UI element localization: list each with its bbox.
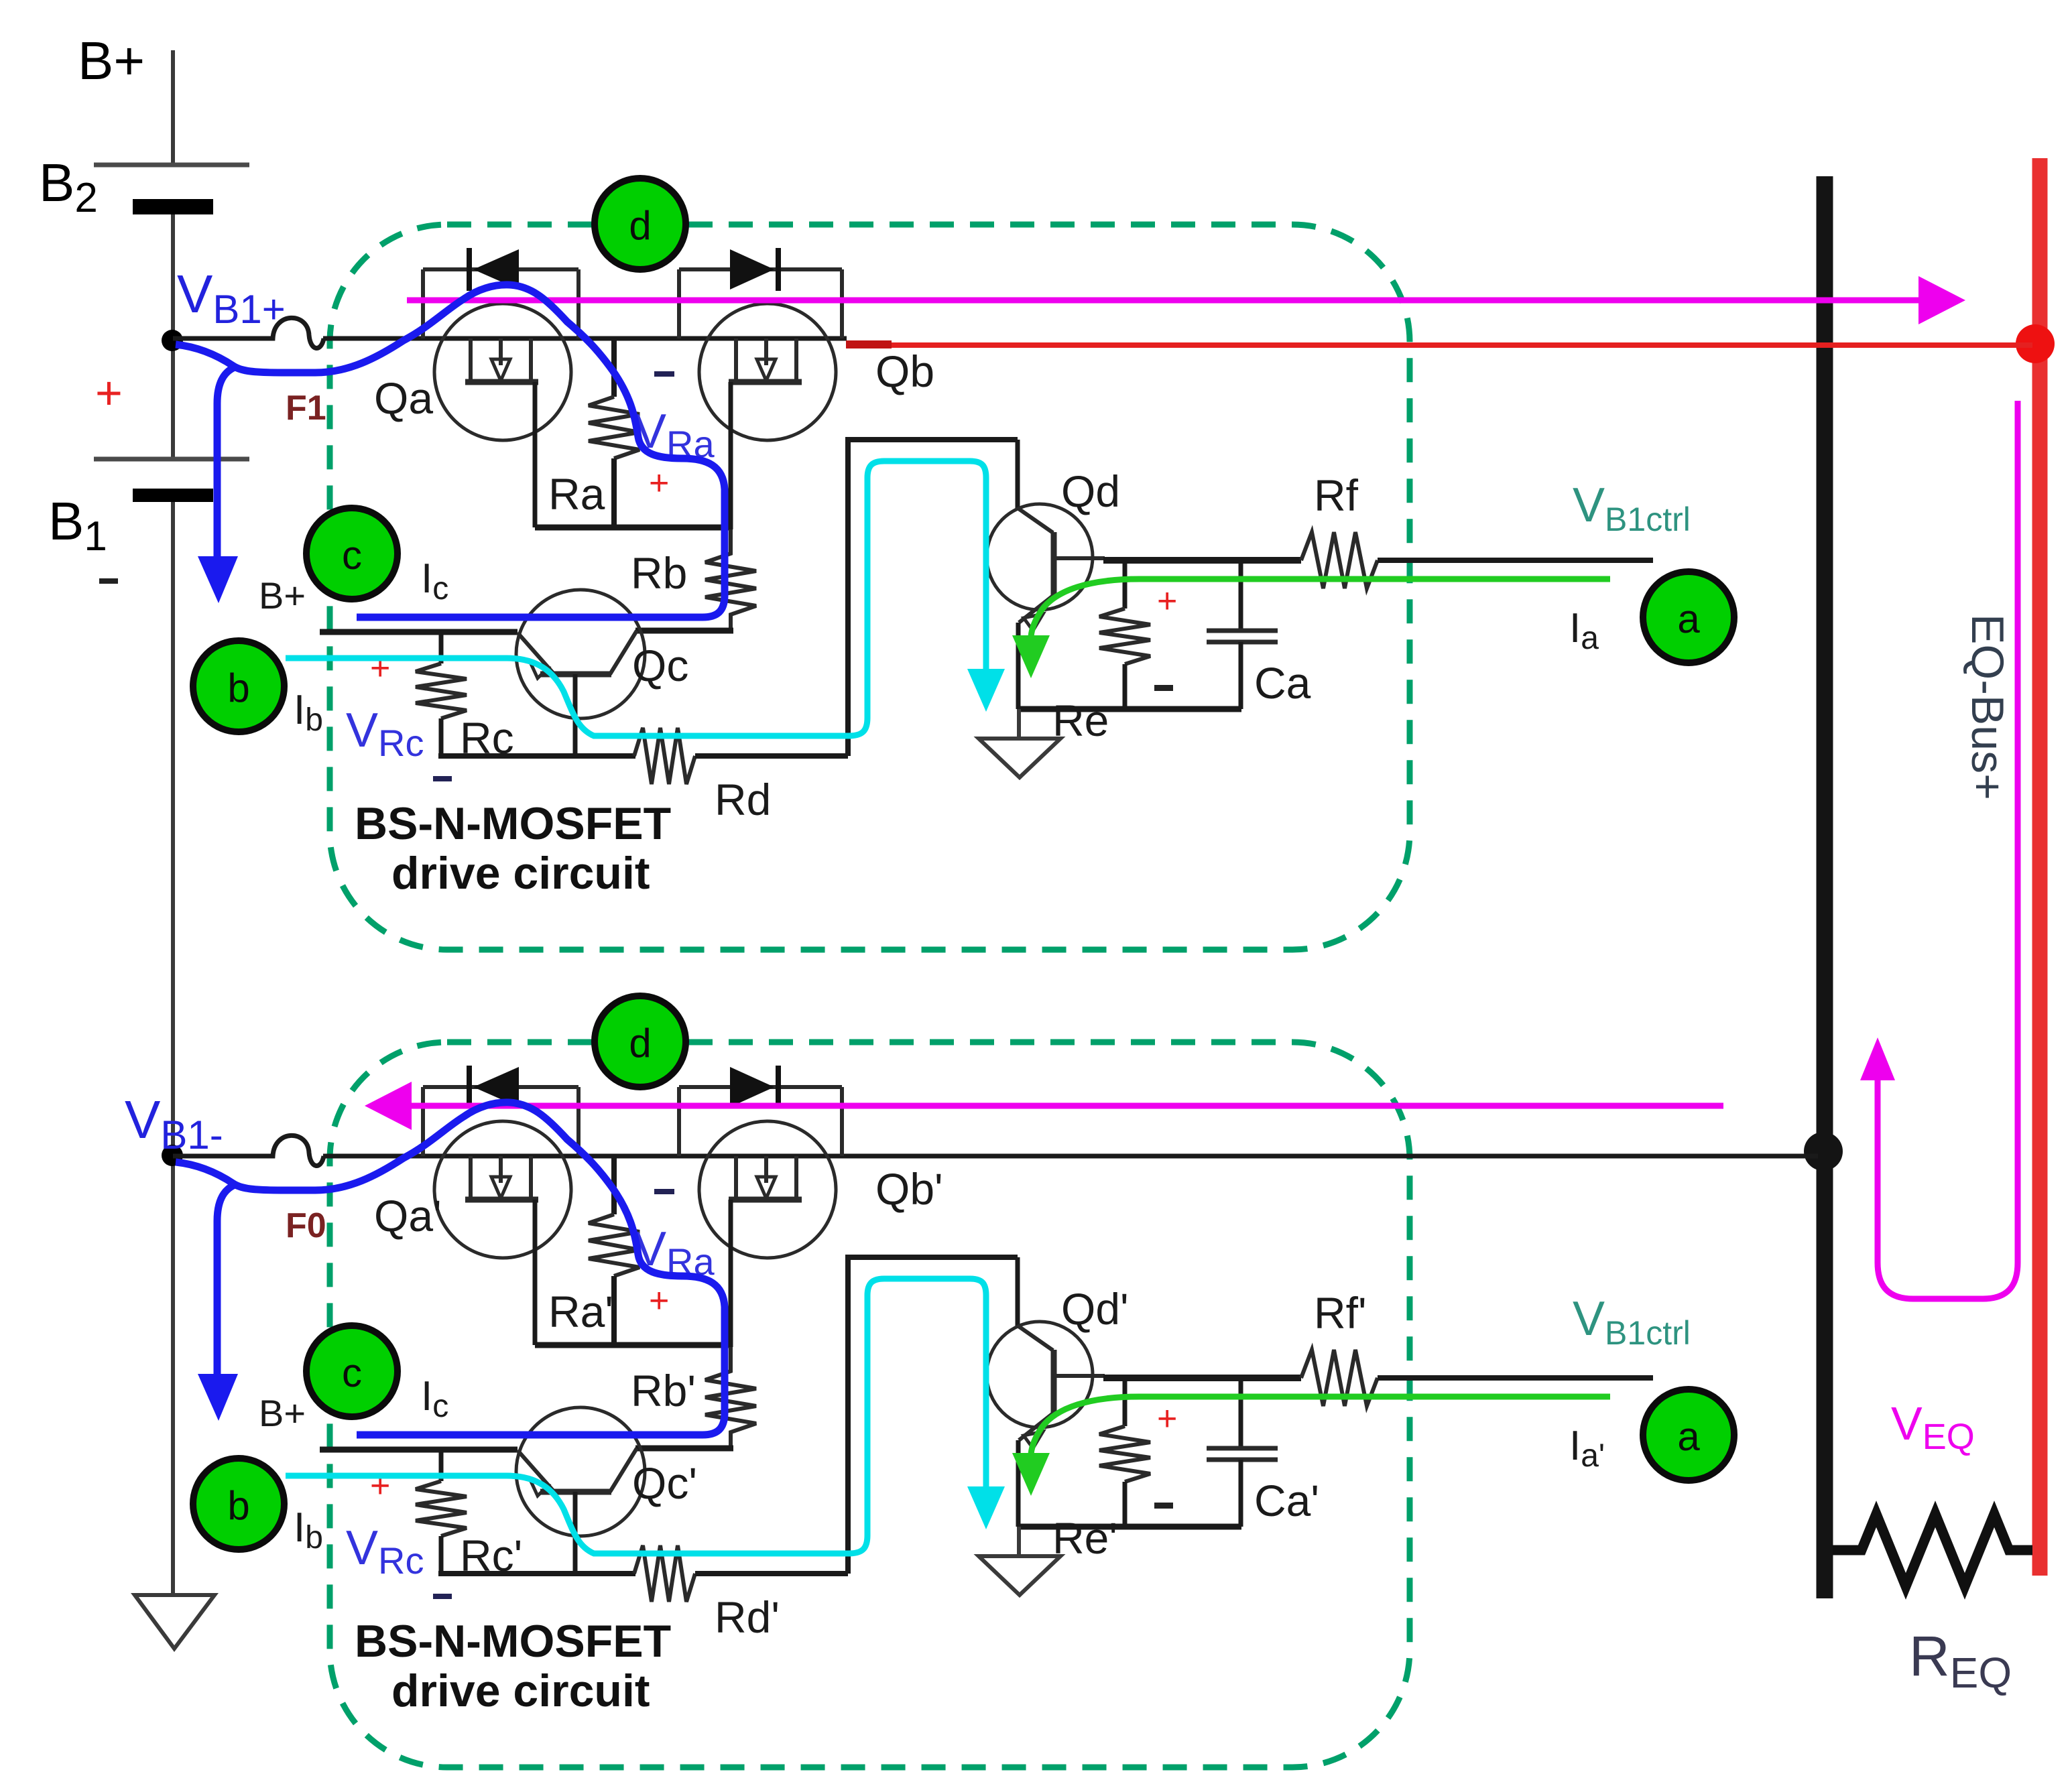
Qd collector diagonal bbox=[1018, 1326, 1053, 1350]
MOSFET Qa body bbox=[434, 304, 571, 440]
fuse F1 bbox=[255, 318, 324, 348]
node VB1- bbox=[162, 1145, 183, 1166]
svg-text:Rc: Rc bbox=[460, 713, 514, 763]
svg-text:d: d bbox=[629, 1021, 651, 1066]
Qd emitter lead down bbox=[1016, 1440, 1021, 1527]
label - of Re bbox=[1154, 685, 1173, 691]
Qd emitter diagonal bbox=[1019, 595, 1054, 623]
Qb substrate arrow bbox=[757, 359, 776, 381]
Qc base bar bbox=[540, 1489, 611, 1495]
svg-text:Qc': Qc' bbox=[632, 1458, 697, 1508]
wire B+ left rail bbox=[171, 50, 175, 165]
Qc collector diagonal bbox=[610, 631, 637, 674]
MOSFET Qb body bbox=[699, 1121, 836, 1258]
Qa diode triangle (points left) bbox=[473, 249, 519, 290]
Qa diode cathode bar bbox=[467, 248, 472, 291]
resistor Rb bbox=[705, 529, 756, 631]
Rc bottom lead bbox=[439, 718, 444, 756]
blue current path (bottom block) bbox=[176, 1102, 725, 1435]
resistor Re stub bbox=[1123, 1378, 1128, 1426]
green current path Ia (top block) bbox=[1031, 579, 1610, 637]
bottom wire Re Ca bbox=[1018, 1524, 1241, 1530]
Qc emitter arrow (PNP, toward base) bbox=[530, 661, 548, 678]
wire fuse to Qa bbox=[323, 336, 437, 341]
svg-text:+: + bbox=[370, 1466, 390, 1505]
Qd base bar bbox=[1051, 1350, 1057, 1413]
svg-text:Rb': Rb' bbox=[631, 1366, 696, 1415]
Qb diode triangle (points right) bbox=[730, 249, 774, 290]
wire Rf to VB1ctrl bbox=[1378, 1375, 1653, 1381]
ground stem (Qd) bbox=[1017, 709, 1021, 739]
Qb diode cathode bar bbox=[776, 1066, 781, 1108]
magenta path (bottom, from EQ bus) bbox=[409, 1103, 1723, 1109]
Qd emitter arrow bbox=[1024, 1432, 1043, 1448]
blue current path (top block) bbox=[176, 285, 725, 617]
MOSFET Qb internals bbox=[729, 1156, 802, 1200]
svg-text:BS-N-MOSFET: BS-N-MOSFET bbox=[355, 798, 671, 849]
wire rail below B1 to ground bbox=[171, 496, 175, 1595]
wire B+ stub to Qc emitter bbox=[320, 1447, 517, 1453]
svg-text:+: + bbox=[95, 367, 123, 419]
svg-text:drive circuit: drive circuit bbox=[391, 848, 650, 899]
black bus bbox=[1817, 176, 1833, 1598]
bottom wire Re Ca bbox=[1018, 706, 1241, 712]
svg-text:a: a bbox=[1677, 596, 1700, 641]
Qd collector diagonal bbox=[1018, 508, 1053, 533]
resistor Rd bbox=[634, 1545, 695, 1602]
ground (Qd emitter) bbox=[979, 739, 1060, 777]
svg-text:+: + bbox=[370, 649, 390, 688]
svg-text:EQ-Bus+: EQ-Bus+ bbox=[1962, 614, 2013, 800]
resistor Rc bbox=[416, 663, 467, 718]
svg-text:d: d bbox=[629, 203, 651, 248]
wire Qc collector to Rb bbox=[635, 628, 733, 634]
svg-text:b: b bbox=[227, 665, 249, 710]
capacitor Ca plates bbox=[1207, 1446, 1278, 1451]
svg-text:Qa': Qa' bbox=[374, 1191, 442, 1241]
body diode of Qa bbox=[423, 269, 578, 338]
node c (bottom) bbox=[306, 1326, 398, 1417]
resistor Rf bbox=[1301, 1350, 1378, 1406]
svg-text:Qc: Qc bbox=[632, 641, 688, 690]
transistor Qc body bbox=[516, 1407, 645, 1536]
Qa gate lead bbox=[533, 382, 538, 527]
svg-text:Ca: Ca bbox=[1254, 658, 1311, 708]
resistor Rb bbox=[705, 1347, 756, 1448]
gate wire bbox=[535, 525, 731, 531]
Qa diode cathode bar bbox=[467, 1066, 472, 1108]
green arrowhead (bottom) bbox=[1012, 1453, 1050, 1496]
svg-text:Qd: Qd bbox=[1061, 466, 1120, 516]
magenta arrowhead (bottom) bbox=[365, 1082, 412, 1130]
resistor Re bbox=[1099, 609, 1150, 664]
Ca bottom lead bbox=[1239, 642, 1243, 709]
svg-text:Rd: Rd bbox=[715, 775, 771, 824]
node a (top) bbox=[1643, 572, 1734, 663]
riser wire to Qd collector rail bbox=[845, 1257, 851, 1574]
MOSFET Qa internals bbox=[465, 338, 538, 382]
wire fuse to Qa bbox=[323, 1154, 437, 1159]
label - of VRa bbox=[654, 1189, 674, 1194]
svg-text:c: c bbox=[342, 1350, 362, 1395]
wire Qc collector to Rb bbox=[635, 1446, 733, 1452]
red wire Qb to EQ-Bus+ bbox=[846, 342, 2032, 348]
Qd base bar bbox=[1051, 532, 1057, 595]
svg-text:+: + bbox=[649, 464, 669, 503]
Qd emitter arrow bbox=[1024, 614, 1043, 631]
resistor Rc stub bbox=[439, 632, 444, 663]
svg-text:B+: B+ bbox=[78, 31, 145, 90]
ground stem (Qd) bbox=[1017, 1527, 1021, 1556]
cyan current path (top block) bbox=[286, 461, 986, 736]
resistor Ra stub from source node bbox=[611, 1156, 617, 1214]
resistor Ra bbox=[589, 397, 639, 458]
body diode of Qb bbox=[679, 1087, 842, 1156]
wire main D-S line through Qa and Qb bbox=[436, 1154, 878, 1159]
svg-text:Qb': Qb' bbox=[875, 1164, 943, 1214]
Qc emitter arrow (PNP, toward base) bbox=[530, 1478, 548, 1496]
Qa substrate arrow bbox=[491, 1177, 510, 1198]
transistor Qd body bbox=[987, 1322, 1093, 1427]
svg-text:b: b bbox=[227, 1483, 249, 1528]
Qc base lead down bbox=[573, 674, 578, 756]
svg-text:Rd': Rd' bbox=[715, 1592, 780, 1642]
transistor Qd body bbox=[987, 504, 1093, 610]
blue arrow at VB1- node bbox=[217, 1185, 235, 1377]
wire rail between batteries bbox=[171, 209, 175, 460]
svg-text:Ra': Ra' bbox=[548, 1287, 613, 1336]
Ra bottom lead bbox=[611, 458, 617, 529]
magenta V_EQ arrowhead bbox=[1860, 1037, 1895, 1080]
control wire to Rf bbox=[1103, 557, 1301, 564]
Qd emitter lead down bbox=[1016, 623, 1021, 709]
MOSFET Qb body bbox=[699, 304, 836, 440]
resistor Rf bbox=[1301, 532, 1378, 588]
svg-text:c: c bbox=[342, 533, 362, 578]
label - of VRc bbox=[433, 1594, 452, 1599]
resistor Ra bbox=[589, 1214, 639, 1276]
node on red bus bbox=[2016, 324, 2055, 363]
dashed enclosure (BS-N-MOSFET drive circuit, top) bbox=[330, 225, 1410, 950]
Qb diode cathode bar bbox=[776, 248, 781, 291]
Qa diode triangle (points left) bbox=[473, 1067, 519, 1107]
base wire Rc to Rd bbox=[438, 753, 635, 759]
svg-text:Ra: Ra bbox=[548, 469, 605, 519]
magenta arrowhead (top) bbox=[1918, 276, 1965, 324]
resistor Rd bbox=[634, 728, 695, 784]
svg-text:+: + bbox=[1157, 1399, 1177, 1438]
svg-text:Rf: Rf bbox=[1314, 470, 1359, 520]
svg-text:B+: B+ bbox=[259, 1392, 306, 1434]
svg-text:Qa: Qa bbox=[374, 373, 433, 423]
resistor Re stub bbox=[1123, 560, 1128, 609]
svg-text:Re': Re' bbox=[1052, 1513, 1117, 1563]
node a (bottom) bbox=[1643, 1389, 1734, 1480]
Qd collector drop bbox=[1016, 440, 1020, 509]
svg-text:drive circuit: drive circuit bbox=[391, 1665, 650, 1716]
Qd base lead bbox=[1054, 556, 1105, 560]
resistor Rc bbox=[416, 1481, 467, 1536]
Qa substrate arrow bbox=[491, 359, 510, 381]
Qb gate lead bbox=[729, 382, 733, 529]
wire Rf to VB1ctrl bbox=[1378, 558, 1653, 563]
node on black bus bbox=[1804, 1132, 1843, 1171]
wire bottom block to black bus bbox=[875, 1154, 1818, 1159]
green arrowhead (top) bbox=[1012, 635, 1050, 678]
capacitor Ca plates bbox=[1207, 629, 1278, 633]
fuse F1 bbox=[255, 1135, 324, 1165]
top wire to Qd collector bbox=[845, 1255, 1018, 1260]
svg-text:F0: F0 bbox=[286, 1206, 326, 1245]
svg-text:B+: B+ bbox=[259, 574, 306, 617]
Qd collector drop bbox=[1016, 1257, 1020, 1327]
Qc base bar bbox=[540, 672, 611, 678]
svg-text:F1: F1 bbox=[286, 389, 326, 428]
svg-text:+: + bbox=[1157, 582, 1177, 621]
dashed enclosure (BS-N-MOSFET drive circuit, top) bbox=[330, 1042, 1410, 1767]
node c (top) bbox=[306, 508, 398, 599]
resistor R_EQ bbox=[1833, 1514, 2032, 1586]
Rc bottom lead bbox=[439, 1536, 444, 1574]
ground (left rail) bbox=[135, 1595, 215, 1649]
wire VB1+ node to fuse bbox=[173, 336, 258, 341]
red wire stub at Qb drain bbox=[846, 340, 892, 348]
svg-text:BS-N-MOSFET: BS-N-MOSFET bbox=[355, 1616, 671, 1667]
green current path Ia' (bottom block) bbox=[1031, 1397, 1610, 1454]
node b (top) bbox=[193, 641, 284, 732]
transistor Qc body bbox=[516, 590, 645, 718]
resistor Ra stub from source node bbox=[611, 338, 617, 397]
label - of VRc bbox=[433, 776, 452, 781]
svg-text:Qb: Qb bbox=[875, 346, 934, 396]
label - of B1 bbox=[99, 578, 118, 584]
svg-text:Rb: Rb bbox=[631, 548, 687, 598]
MOSFET Qa body bbox=[434, 1121, 571, 1258]
svg-text:Qd': Qd' bbox=[1061, 1284, 1129, 1334]
cyan arrowhead (bottom) bbox=[967, 1486, 1005, 1529]
svg-text:Rc': Rc' bbox=[460, 1531, 522, 1580]
Qb gate lead bbox=[729, 1200, 733, 1347]
wire Rd to riser bbox=[695, 753, 848, 759]
Qb diode triangle (points right) bbox=[730, 1067, 774, 1107]
battery B1 bbox=[94, 457, 249, 462]
wire B+ stub to Qc emitter bbox=[320, 629, 517, 635]
resistor Rc stub bbox=[439, 1450, 444, 1481]
magenta V_EQ loop bbox=[1878, 401, 2018, 1299]
Qc emitter diagonal bbox=[517, 1450, 553, 1490]
Re bottom lead bbox=[1123, 1482, 1128, 1527]
svg-text:+: + bbox=[649, 1281, 669, 1320]
svg-text:Rf': Rf' bbox=[1314, 1288, 1367, 1338]
body diode of Qa bbox=[423, 1087, 578, 1156]
Qc base lead down bbox=[573, 1492, 578, 1574]
Ra bottom lead bbox=[611, 1276, 617, 1347]
battery B2 bbox=[94, 163, 249, 168]
body diode of Qb bbox=[679, 269, 842, 338]
Qc emitter diagonal bbox=[517, 633, 553, 673]
top wire to Qd collector bbox=[845, 437, 1018, 442]
control wire to Rf bbox=[1103, 1375, 1301, 1381]
Qd base lead bbox=[1054, 1374, 1105, 1378]
label - of VRa bbox=[654, 371, 674, 377]
base wire Rc to Rd bbox=[438, 1571, 635, 1576]
magenta path (top, to EQ-Bus+) bbox=[407, 298, 1921, 304]
riser wire to Qd collector rail bbox=[845, 440, 851, 756]
wire VB1+ node to fuse bbox=[173, 1154, 258, 1159]
node VB1+ bbox=[162, 330, 183, 351]
gate wire bbox=[535, 1342, 731, 1348]
node d (bottom) bbox=[595, 996, 686, 1087]
node d (top) bbox=[595, 178, 686, 269]
Ca bottom lead bbox=[1239, 1460, 1243, 1527]
Qb substrate arrow bbox=[757, 1177, 776, 1198]
cyan arrowhead (top) bbox=[967, 669, 1005, 712]
wire main D-S line through Qa and Qb bbox=[436, 336, 847, 341]
Re bottom lead bbox=[1123, 664, 1128, 709]
MOSFET Qa internals bbox=[465, 1156, 538, 1200]
blue arrow at VB1+ node bbox=[217, 367, 235, 559]
wire Rd to riser bbox=[695, 1571, 848, 1576]
red bus EQ-Bus+ bbox=[2032, 158, 2048, 1576]
node b (bottom) bbox=[193, 1458, 284, 1549]
Qa gate lead bbox=[533, 1200, 538, 1345]
svg-text:Re: Re bbox=[1052, 696, 1109, 745]
resistor Re bbox=[1099, 1426, 1150, 1482]
label - of Re bbox=[1154, 1503, 1173, 1509]
Qc collector diagonal bbox=[610, 1448, 637, 1492]
capacitor Ca top lead bbox=[1239, 1378, 1243, 1448]
svg-text:a: a bbox=[1677, 1414, 1700, 1459]
Qd emitter diagonal bbox=[1019, 1413, 1054, 1440]
svg-text:Ca': Ca' bbox=[1254, 1476, 1319, 1525]
ground (Qd emitter) bbox=[979, 1556, 1060, 1595]
MOSFET Qb internals bbox=[729, 338, 802, 382]
cyan current path (bottom block) bbox=[286, 1279, 986, 1553]
capacitor Ca top lead bbox=[1239, 560, 1243, 631]
